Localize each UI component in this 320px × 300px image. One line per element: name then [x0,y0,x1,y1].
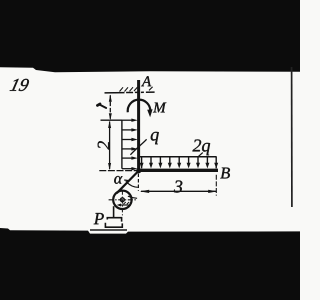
horizontal bar member corner-B [137,169,218,172]
dimension 3 line [141,190,216,192]
distributed load q arrowheads [131,119,137,171]
dimension 3 label [174,180,182,192]
angle alpha label [114,176,122,184]
dimension 1 arrow down [109,113,112,120]
angle alpha leader dash [124,179,128,182]
distributed load 2q arrow stems [142,157,217,169]
angle alpha arc [126,181,138,187]
node A label [141,76,151,86]
cable from pulley to weight [113,206,115,218]
force P label [94,213,104,224]
tick line between dimensions [101,119,123,121]
node B label [220,168,230,179]
dashed vertical reference below corner [137,174,139,191]
small ticks inside pulley [123,202,125,204]
dimension 2 label [98,141,110,150]
weight block bottom bracket [105,223,122,227]
load q label [151,132,159,144]
load 2q label [193,139,211,155]
scan bottom black bar [0,228,300,300]
wall support at A: surface line [105,91,155,94]
dimension 2 line [109,122,111,170]
inclined link from corner to pulley [117,171,139,194]
pulley vertical centerline [121,191,123,216]
corner junction blob [136,168,141,173]
scan bottom thin line detail [90,229,127,230]
weight block top line [107,218,121,222]
pulley hub [121,198,125,202]
scan top black bar [0,0,300,72]
moment M arrowhead [147,109,152,117]
problem number 19 [10,79,29,91]
distributed load q rungs [122,120,132,169]
distributed load q ladder rail [121,120,123,169]
pulley horizontal centerline [109,199,138,201]
load 2q leader line [198,153,203,158]
dimension 2 arrow down [108,163,111,170]
small arrow inside pulley [119,204,129,206]
page border line right [291,67,293,207]
vertical bar member A-corner [137,80,140,172]
dimension 1 line [109,95,111,119]
dimension 3 left arrowhead [140,190,149,193]
load q leader line [130,139,146,155]
moment M label [153,103,166,113]
wall support at A: hatching [120,87,153,92]
distributed load 2q top line [140,156,217,158]
distributed load 2q arrowheads [140,163,219,169]
dimension 2 arrow up [108,121,111,128]
dimension 1 label [97,104,106,108]
bottom tick line at corner level [99,170,137,172]
pulley circle [113,191,131,209]
moment M arc [128,100,151,113]
dimension 3 right extension line [215,175,217,196]
angle alpha outer arc [128,196,137,198]
dimension 3 right arrowhead [208,190,217,193]
dimension 1 arrow up [109,95,112,102]
